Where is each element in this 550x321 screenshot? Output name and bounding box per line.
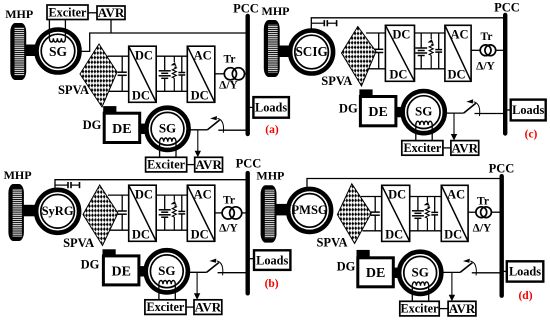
svg-text:SG: SG bbox=[412, 264, 429, 279]
AVR box DG (d) bbox=[448, 301, 476, 316]
wire DC link positive (b) bbox=[156, 194, 187, 196]
hydro turbine (d) bbox=[261, 185, 277, 242]
generator DG SG (a) bbox=[146, 108, 188, 158]
svg-text:DE: DE bbox=[368, 105, 387, 120]
wire PV positive rail (c) bbox=[366, 32, 385, 34]
svg-text:MHP: MHP bbox=[256, 169, 284, 183]
svg-text:PCC: PCC bbox=[233, 2, 259, 16]
svg-text:Δ/Y: Δ/Y bbox=[476, 60, 495, 72]
converter DC-AC (a) bbox=[187, 46, 215, 102]
svg-text:DC: DC bbox=[191, 227, 209, 241]
wire PV negative rail (d) bbox=[363, 230, 382, 232]
svg-text:Tr: Tr bbox=[223, 195, 235, 207]
svg-text:SG: SG bbox=[49, 44, 68, 59]
svg-text:Tr: Tr bbox=[224, 54, 236, 66]
svg-text:SG: SG bbox=[159, 120, 176, 135]
svg-text:DC: DC bbox=[132, 88, 150, 102]
shaft DE-SG (c) bbox=[396, 107, 405, 117]
transformer Tr (c) bbox=[480, 45, 495, 56]
svg-text:AC: AC bbox=[194, 48, 212, 62]
Loads box (b) bbox=[254, 250, 290, 270]
wire Exciter-AVR DG (b) bbox=[186, 306, 194, 308]
hydro turbine (c) bbox=[264, 20, 280, 77]
Exciter box DG (a) bbox=[146, 157, 187, 172]
svg-text:DC: DC bbox=[388, 188, 406, 202]
generator DG SG (d) bbox=[399, 252, 441, 302]
svg-text:MHP: MHP bbox=[262, 4, 290, 18]
wire generator output (d) bbox=[307, 179, 502, 190]
solar PV array (a) bbox=[80, 44, 117, 107]
wire DG output (d) bbox=[441, 271, 461, 273]
capacitor PV link (c) bbox=[374, 33, 383, 69]
wire inverter to transformer (a) bbox=[215, 73, 225, 75]
svg-text:Exciter: Exciter bbox=[49, 5, 87, 19]
wire inverter to transformer (c) bbox=[471, 49, 480, 51]
diesel engine DE box (c) bbox=[360, 97, 396, 126]
svg-text:Exciter: Exciter bbox=[147, 158, 185, 172]
breaker switch (c) bbox=[464, 99, 480, 116]
AVR box DG (a) bbox=[195, 157, 223, 172]
breaker switch (d) bbox=[460, 259, 476, 276]
DE exhaust block (d) bbox=[357, 250, 370, 258]
PCC bus (b) bbox=[245, 173, 249, 293]
svg-text:SPVA: SPVA bbox=[316, 236, 347, 250]
svg-text:DC: DC bbox=[444, 227, 462, 241]
wire AVR sense DG (c) bbox=[453, 113, 455, 136]
shaft DE-SG (b) bbox=[139, 266, 148, 276]
Exciter box DG (c) bbox=[402, 141, 443, 156]
wire PV negative rail (b) bbox=[110, 229, 129, 231]
hydro turbine (b) bbox=[8, 184, 24, 241]
svg-text:(b): (b) bbox=[265, 278, 279, 290]
wire switch to bus (d) bbox=[472, 272, 502, 274]
wire DG output (c) bbox=[444, 112, 464, 114]
transformer Tr (b) bbox=[222, 207, 242, 219]
transformer Tr (d) bbox=[476, 207, 492, 218]
wire bus to loads (b) bbox=[248, 258, 254, 260]
svg-text:Δ/Y: Δ/Y bbox=[219, 223, 238, 235]
svg-text:SG: SG bbox=[158, 263, 175, 278]
DE exhaust block (a) bbox=[103, 106, 116, 113]
svg-text:Tr: Tr bbox=[481, 31, 493, 43]
capacitor DC link (d) bbox=[431, 197, 438, 231]
wire AVR sense DG (d) bbox=[451, 272, 453, 296]
shaft turbine-generator (b) bbox=[23, 205, 38, 217]
svg-text:Exciter: Exciter bbox=[401, 302, 439, 316]
svg-text:SyRG: SyRG bbox=[42, 204, 74, 218]
converter DC-AC (c) bbox=[445, 25, 471, 81]
breaker switch (b) bbox=[207, 259, 223, 276]
converter DC-DC (d) bbox=[382, 185, 410, 241]
wire transformer to bus (a) bbox=[245, 73, 248, 75]
svg-text:SPVA: SPVA bbox=[321, 74, 352, 88]
wire DG output (a) bbox=[188, 129, 208, 131]
converter DC-DC (b) bbox=[129, 185, 157, 241]
svg-text:PMSG: PMSG bbox=[292, 203, 328, 217]
svg-text:(d): (d) bbox=[518, 290, 532, 302]
wire bus to loads (c) bbox=[505, 109, 511, 111]
svg-text:DE: DE bbox=[111, 264, 130, 279]
Loads box (a) bbox=[253, 97, 289, 118]
wire PV positive rail (d) bbox=[361, 196, 382, 198]
Exciter box DG (b) bbox=[145, 300, 186, 315]
wire Exciter-AVR DG (d) bbox=[439, 308, 448, 310]
wire Exciter-AVR DG (c) bbox=[443, 147, 451, 149]
capacitor DC link (c) bbox=[435, 33, 442, 69]
svg-text:PCC: PCC bbox=[494, 0, 520, 14]
svg-text:DG: DG bbox=[83, 118, 102, 132]
svg-text:MHP: MHP bbox=[5, 7, 33, 21]
excitation capacitor (b) bbox=[55, 182, 80, 188]
wire transformer to bus (c) bbox=[496, 49, 506, 51]
svg-text:DC: DC bbox=[135, 48, 153, 62]
svg-text:DG: DG bbox=[337, 260, 356, 274]
converter DC-DC (c) bbox=[385, 25, 414, 81]
wire PV positive rail (b) bbox=[108, 194, 129, 196]
battery (BES) (d) bbox=[412, 197, 424, 231]
generator DG SG (c) bbox=[403, 91, 445, 141]
svg-text:AVR: AVR bbox=[195, 157, 222, 172]
wire AVR sense DG (a) bbox=[197, 130, 199, 153]
generator SyRG (b) bbox=[36, 190, 79, 233]
svg-text:DC: DC bbox=[389, 67, 407, 81]
svg-text:DC: DC bbox=[132, 227, 150, 241]
diesel engine DE box (a) bbox=[104, 113, 140, 142]
svg-text:DG: DG bbox=[81, 258, 100, 272]
battery (BES) (a) bbox=[159, 56, 171, 91]
wire generator output (b) bbox=[55, 180, 248, 191]
Loads box (d) bbox=[507, 261, 544, 281]
svg-text:(a): (a) bbox=[265, 124, 279, 136]
battery (BES) (c) bbox=[415, 33, 427, 69]
svg-text:MHP: MHP bbox=[4, 168, 32, 182]
generator PMSG (d) bbox=[288, 189, 331, 232]
wire PV negative rail (c) bbox=[368, 68, 386, 70]
wire DC link negative (b) bbox=[156, 229, 187, 231]
capacitor PV link (d) bbox=[371, 197, 380, 231]
svg-text:DC: DC bbox=[385, 227, 403, 241]
shaft DE-SG (d) bbox=[393, 268, 401, 278]
wire Exciter-AVR DG (a) bbox=[187, 164, 195, 166]
wire bus to loads (a) bbox=[248, 106, 254, 108]
svg-text:Δ/Y: Δ/Y bbox=[219, 80, 238, 92]
svg-text:AC: AC bbox=[450, 28, 468, 42]
Exciter box DG (d) bbox=[400, 301, 439, 316]
svg-text:Tr: Tr bbox=[477, 195, 489, 207]
svg-text:AVR: AVR bbox=[98, 5, 125, 20]
wire DC link positive (c) bbox=[415, 32, 445, 34]
diesel engine DE box (b) bbox=[103, 256, 138, 285]
wire PV negative rail (a) bbox=[109, 90, 129, 92]
capacitor PV link (a) bbox=[118, 56, 127, 91]
svg-text:DC: DC bbox=[447, 67, 465, 81]
chopper resistor (b) bbox=[171, 195, 177, 230]
svg-text:AC: AC bbox=[194, 187, 212, 201]
wire DC link negative (d) bbox=[410, 230, 442, 232]
wire DC link positive (d) bbox=[410, 196, 442, 198]
wire DC link negative (a) bbox=[156, 90, 187, 92]
PCC bus (a) bbox=[245, 16, 249, 134]
wire generator output (c) bbox=[311, 18, 505, 32]
shaft turbine-generator (a) bbox=[26, 45, 39, 57]
svg-text:DC: DC bbox=[392, 28, 410, 42]
generator SCIG (c) bbox=[290, 31, 333, 74]
wire AVR sense DG (b) bbox=[196, 272, 198, 295]
wire switch to bus (c) bbox=[475, 113, 506, 115]
converter DC-AC (d) bbox=[441, 185, 468, 241]
diesel engine DE box (d) bbox=[358, 258, 394, 287]
svg-text:DE: DE bbox=[366, 266, 385, 281]
shaft DE-SG (a) bbox=[140, 124, 149, 134]
generator SG (a) bbox=[37, 20, 80, 73]
Exciter box top (a) bbox=[47, 5, 88, 20]
transformer Tr (a) bbox=[224, 68, 244, 80]
svg-text:SPVA: SPVA bbox=[58, 83, 89, 97]
Loads box (c) bbox=[511, 100, 546, 121]
svg-text:(c): (c) bbox=[525, 129, 538, 141]
wire inverter to transformer (d) bbox=[468, 211, 476, 213]
svg-text:DC: DC bbox=[191, 88, 209, 102]
svg-text:AC: AC bbox=[447, 188, 465, 202]
wire PV positive rail (a) bbox=[108, 55, 129, 57]
svg-text:SCIG: SCIG bbox=[295, 44, 327, 59]
svg-text:AVR: AVR bbox=[195, 300, 222, 315]
shaft turbine-generator (d) bbox=[276, 204, 291, 216]
AVR box DG (b) bbox=[194, 300, 222, 315]
svg-text:Loads: Loads bbox=[512, 103, 544, 117]
wire switch to bus (a) bbox=[218, 129, 247, 131]
generator DG SG (b) bbox=[146, 250, 188, 300]
battery (BES) (b) bbox=[159, 195, 171, 230]
svg-text:SG: SG bbox=[415, 104, 432, 119]
wire transformer to bus (d) bbox=[491, 211, 501, 213]
solar PV array (c) bbox=[342, 27, 377, 87]
svg-text:Exciter: Exciter bbox=[403, 141, 441, 155]
svg-text:Δ/Y: Δ/Y bbox=[473, 223, 492, 235]
DE exhaust block (c) bbox=[359, 89, 372, 96]
svg-text:Exciter: Exciter bbox=[146, 300, 184, 314]
svg-text:AVR: AVR bbox=[452, 140, 479, 155]
svg-text:Loads: Loads bbox=[256, 253, 288, 267]
DE exhaust block (b) bbox=[103, 249, 116, 256]
PCC bus (d) bbox=[500, 176, 504, 296]
solar PV array (b) bbox=[83, 185, 118, 246]
svg-text:Loads: Loads bbox=[255, 101, 287, 115]
shaft turbine-generator (c) bbox=[279, 46, 292, 58]
solar PV array (d) bbox=[337, 184, 371, 244]
svg-text:SPVA: SPVA bbox=[63, 236, 94, 250]
excitation capacitor (c) bbox=[311, 20, 336, 26]
chopper resistor (d) bbox=[424, 197, 430, 231]
wire generator output (a) bbox=[79, 33, 248, 51]
wire bus to loads (d) bbox=[502, 270, 507, 272]
svg-text:DC: DC bbox=[135, 187, 153, 201]
wire Exciter-AVR (a) bbox=[88, 12, 97, 14]
svg-text:DE: DE bbox=[112, 122, 131, 137]
wire AVR sense (a) bbox=[110, 20, 112, 34]
wire transformer to bus (b) bbox=[242, 212, 248, 214]
hydro turbine (a) bbox=[10, 23, 26, 80]
wire switch to bus (b) bbox=[218, 272, 248, 274]
wire inverter to transformer (b) bbox=[215, 212, 222, 214]
breaker switch (a) bbox=[207, 116, 223, 133]
svg-text:PCC: PCC bbox=[489, 162, 515, 176]
svg-text:DG: DG bbox=[339, 101, 358, 115]
converter DC-DC (a) bbox=[129, 46, 157, 102]
wire DC link positive (a) bbox=[156, 55, 187, 57]
capacitor PV link (b) bbox=[118, 195, 127, 230]
svg-text:Loads: Loads bbox=[509, 265, 541, 279]
chopper resistor (a) bbox=[171, 56, 177, 91]
capacitor DC link (a) bbox=[178, 56, 185, 91]
PCC bus (c) bbox=[503, 15, 507, 134]
wire DG output (b) bbox=[187, 271, 207, 273]
wire DC link negative (c) bbox=[415, 68, 445, 70]
svg-text:AVR: AVR bbox=[449, 301, 476, 316]
converter DC-AC (b) bbox=[187, 185, 215, 241]
capacitor DC link (b) bbox=[178, 195, 185, 230]
AVR box top (a) bbox=[97, 5, 125, 20]
chopper resistor (c) bbox=[427, 33, 433, 69]
AVR box DG (c) bbox=[451, 140, 479, 155]
